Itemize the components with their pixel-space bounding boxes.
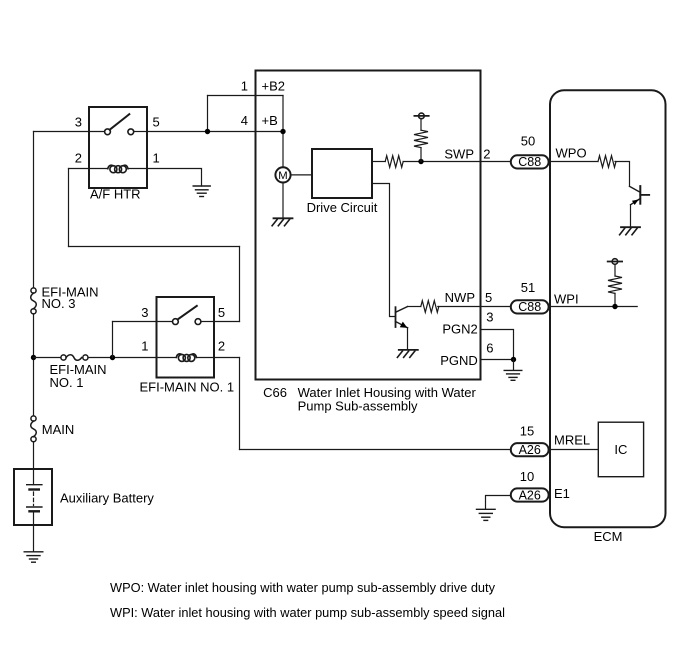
wire WPO resistor to transistor: [615, 162, 630, 187]
svg-text:1: 1: [141, 338, 148, 353]
wire relay pin 3 stub: [113, 321, 157, 323]
resistor SWP pull-up vertical: [414, 130, 428, 147]
node junction dot at (33.5,357.7): [31, 355, 36, 360]
wire riser x=239.3 down to relay pin 5: [239, 247, 241, 322]
svg-text:3: 3: [75, 114, 82, 129]
svg-text:15: 15: [520, 424, 534, 439]
fuse EFI-MAIN NO. 1: [34, 355, 177, 361]
wire PGND: [481, 359, 514, 361]
wire MAIN fuse to battery: [33, 442, 35, 485]
svg-text:M: M: [278, 170, 287, 182]
box Drive Circuit: [312, 149, 372, 198]
chassis ground below motor: [272, 218, 292, 226]
svg-text:3: 3: [141, 305, 148, 320]
svg-text:Pump Sub-assembly: Pump Sub-assembly: [298, 399, 418, 414]
svg-text:+B2: +B2: [262, 79, 286, 94]
wire relay pin 5 stub to riser: [214, 321, 240, 323]
node junction dot at (513,359.3): [511, 357, 516, 362]
C66 water pump sub-assembly box: [256, 71, 481, 380]
wire riser x=68.5 down from coil: [68, 169, 70, 247]
node junction dot at (207.5,131.7): [205, 129, 210, 134]
wire drive circuit lower output: [372, 184, 395, 317]
svg-text:50: 50: [521, 134, 535, 149]
wire +B2 row y=95.9: [208, 95, 284, 97]
wire NWP row to C88 oval: [438, 306, 511, 308]
wire relay pin 2 stub to riser: [197, 357, 240, 359]
svg-text:C88: C88: [518, 155, 541, 169]
wire E1 to ground: [486, 496, 511, 510]
svg-text:WPO: Water inlet housing with: WPO: Water inlet housing with water pump…: [110, 580, 496, 595]
svg-text:5: 5: [153, 114, 160, 129]
svg-text:SWP: SWP: [444, 146, 474, 161]
svg-text:1: 1: [153, 151, 160, 166]
transistor Q inside C66: [396, 307, 408, 350]
svg-text:6: 6: [486, 341, 493, 356]
wire MREL row y=449.7: [240, 449, 511, 451]
chassis ground below transistor: [397, 350, 417, 358]
svg-text:51: 51: [521, 280, 535, 295]
wire left column x=33.5 from +B row to EFI-MAIN NO.3 fuse: [33, 132, 35, 288]
svg-text:A26: A26: [519, 488, 541, 502]
ground at E1: [477, 509, 496, 520]
svg-text:3: 3: [486, 309, 493, 324]
wire pull-up to SWP row: [420, 148, 422, 162]
wire A/F HTR pin 5 to C66 +B pin 4: [147, 131, 283, 133]
wire row y=247: [69, 246, 240, 248]
wire MREL inside ECM to IC: [549, 449, 599, 451]
svg-text:5: 5: [218, 305, 225, 320]
svg-text:A/F HTR: A/F HTR: [90, 186, 141, 201]
resistor NWP series: [421, 301, 439, 313]
fuse MAIN: [31, 416, 37, 442]
battery Auxiliary Battery: [14, 469, 52, 525]
svg-text:10: 10: [520, 469, 534, 484]
wire battery to ground: [33, 511, 35, 552]
relay A/F HTR: [89, 107, 147, 188]
resistor WPO: [598, 156, 616, 168]
svg-text:WPO: WPO: [556, 146, 587, 161]
wire riser x=207.5 between +B2 and +B rows: [207, 96, 209, 132]
svg-text:PGND: PGND: [440, 353, 478, 368]
transistor in ECM (WPO driver): [630, 186, 650, 227]
power symbol above SWP pull-up: [414, 113, 428, 130]
resistor WPI pull-up vertical: [608, 276, 622, 293]
wire riser x=239.3 relay pin2 down to MREL row: [239, 358, 241, 450]
connector C88 pin 50: [511, 155, 549, 168]
resistor SWP series: [385, 156, 403, 168]
node junction dot at (112.7,357.7): [110, 355, 115, 360]
svg-text:Water Inlet Housing with Water: Water Inlet Housing with Water: [298, 385, 477, 400]
wire pull-up to WPI row: [614, 293, 616, 306]
wire SWP row to C88 oval: [403, 161, 511, 163]
node junction dot at (421,161.6): [418, 159, 423, 164]
motor M: [275, 167, 290, 182]
wire drive circuit to SWP resistor: [372, 161, 385, 163]
power symbol above WPI pull-up: [608, 259, 622, 276]
fuse EFI-MAIN NO. 3: [31, 288, 37, 314]
wire left column fuse to MAIN fuse: [33, 314, 35, 416]
connector A26 pin 10: [511, 488, 549, 501]
wire motor down to chassis ground: [282, 183, 284, 219]
svg-text:+B: +B: [262, 113, 278, 128]
node junction dot at (283,131.7): [280, 129, 285, 134]
svg-text:NWP: NWP: [445, 290, 475, 305]
node junction dot at (615,306.9): [612, 304, 617, 309]
svg-text:2: 2: [218, 338, 225, 353]
svg-text:MAIN: MAIN: [42, 422, 75, 437]
svg-text:2: 2: [483, 146, 490, 161]
svg-text:NO. 1: NO. 1: [50, 375, 84, 390]
wire PGN2: [481, 330, 514, 360]
wire motor to drive circuit: [291, 174, 312, 176]
svg-text:EFI-MAIN NO. 1: EFI-MAIN NO. 1: [140, 380, 235, 395]
connector A26 pin 15: [511, 443, 549, 456]
svg-text:MREL: MREL: [554, 432, 590, 447]
svg-text:5: 5: [485, 290, 492, 305]
svg-text:Drive Circuit: Drive Circuit: [307, 200, 378, 215]
svg-text:E1: E1: [554, 486, 570, 501]
svg-text:IC: IC: [614, 442, 627, 457]
wire WPO inside ECM: [549, 161, 598, 163]
svg-text:ECM: ECM: [594, 529, 623, 544]
wire WPI inside ECM: [549, 306, 638, 308]
svg-text:2: 2: [75, 151, 82, 166]
wire riser x=112.7 up to relay pin 3: [112, 322, 114, 358]
svg-text:A26: A26: [519, 443, 541, 457]
svg-text:WPI: WPI: [554, 292, 579, 307]
wire A/F HTR coil pin 2 left stub: [69, 168, 108, 170]
ground below battery: [24, 552, 43, 562]
svg-text:4: 4: [241, 113, 248, 128]
svg-text:1: 1: [241, 79, 248, 94]
box IC: [598, 422, 643, 477]
svg-text:Auxiliary Battery: Auxiliary Battery: [60, 490, 154, 505]
svg-text:C88: C88: [518, 300, 541, 314]
wire +B row y=131.7 left segment to A/F HTR pin 3: [34, 131, 90, 133]
svg-text:C66: C66: [263, 385, 287, 400]
wire A/F HTR coil pin 1 to ground: [128, 169, 202, 187]
wire riser x=283 from +B2 down to motor: [282, 96, 284, 168]
svg-text:PGN2: PGN2: [442, 321, 477, 336]
ECM box: [550, 90, 666, 527]
wire collector to NWP resistor: [408, 306, 421, 308]
relay EFI-MAIN NO. 1: [157, 297, 215, 378]
connector C88 pin 51: [511, 300, 549, 313]
wire PGND dot to ground: [513, 360, 515, 371]
svg-text:WPI: Water inlet housing with: WPI: Water inlet housing with water pump…: [110, 605, 505, 620]
svg-text:NO. 3: NO. 3: [42, 296, 76, 311]
ground at A/F HTR pin 1: [193, 186, 210, 197]
ground at PGND: [504, 370, 522, 380]
chassis ground below ECM transistor: [620, 227, 640, 235]
